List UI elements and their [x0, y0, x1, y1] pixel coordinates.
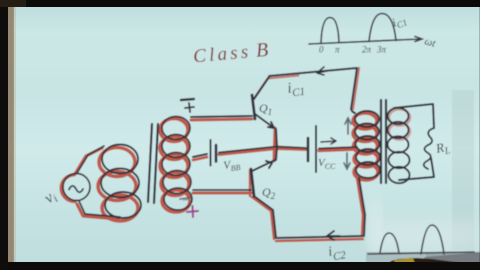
svg-text:0: 0 [319, 45, 324, 55]
svg-text:3π: 3π [376, 45, 387, 55]
svg-text:π: π [335, 45, 340, 55]
svg-text:B: B [255, 39, 269, 62]
svg-text:2π: 2π [362, 45, 372, 55]
